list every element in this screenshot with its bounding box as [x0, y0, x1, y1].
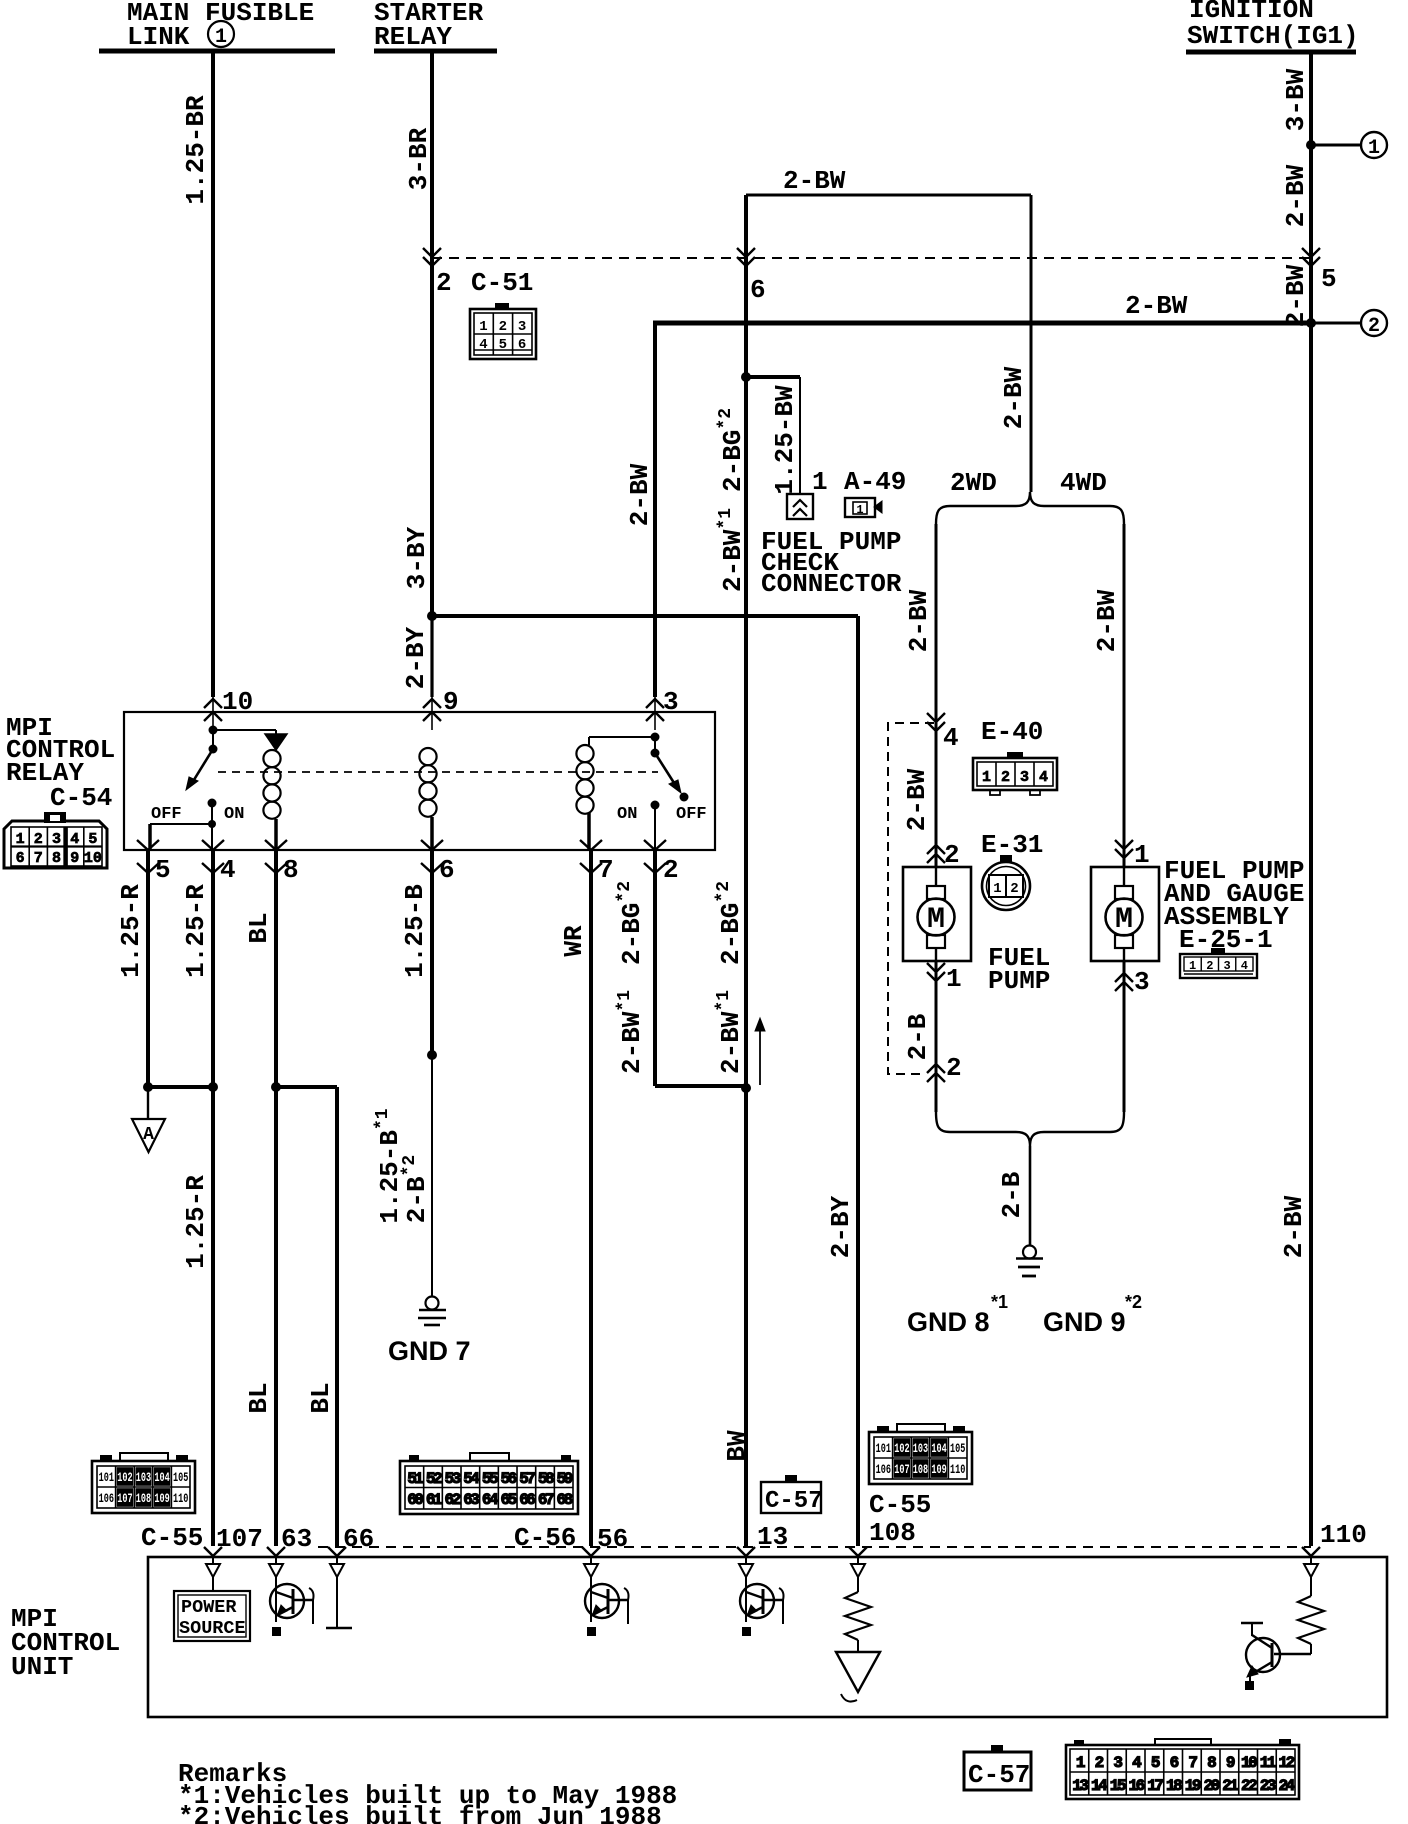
- contact OFF right: [680, 793, 689, 802]
- wire 2-B to GND7: [431, 1055, 433, 1297]
- svg-text:2: 2: [1206, 959, 1213, 973]
- MPI pin 63: [267, 1547, 285, 1556]
- junction dot to circled 1: [1306, 140, 1316, 150]
- transistor Q4: [1241, 1623, 1311, 1690]
- label GND 8 *1: [907, 1292, 1008, 1337]
- relay pin 3: [654, 697, 656, 730]
- svg-text:105: 105: [950, 1442, 965, 1456]
- svg-text:1.25-R: 1.25-R: [181, 1175, 211, 1269]
- svg-text:E-40: E-40: [981, 717, 1043, 747]
- svg-text:GND 7: GND 7: [388, 1336, 471, 1366]
- MPI pin 13: [737, 1547, 755, 1556]
- connector A-49 icon: [845, 498, 882, 517]
- connector C-57 icon bottom: [964, 1745, 1031, 1790]
- svg-text:6: 6: [16, 850, 25, 867]
- wire 1.25-B pin6: [430, 851, 434, 1055]
- svg-text:5: 5: [1321, 264, 1337, 294]
- svg-text:5: 5: [88, 831, 97, 848]
- wire 2-BW left branch down to fuel pump circuit: [744, 195, 748, 1546]
- svg-text:105: 105: [173, 1471, 188, 1485]
- svg-text:M: M: [927, 903, 945, 937]
- relay coil1 bottom wire: [274, 819, 278, 851]
- svg-text:56: 56: [501, 1470, 517, 1488]
- svg-text:107: 107: [894, 1463, 909, 1477]
- svg-text:3: 3: [518, 319, 526, 335]
- svg-text:1: 1: [1134, 840, 1150, 870]
- svg-text:65: 65: [501, 1491, 517, 1509]
- relay pin 8: [265, 840, 287, 850]
- svg-text:2: 2: [1010, 881, 1018, 897]
- labels 1.25-B*1 2-B*2: [373, 1108, 432, 1223]
- driver triangle: [836, 1652, 880, 1702]
- wire BL branch to MPI 66: [276, 1085, 337, 1089]
- pin 3 arrow below 4WD pump: [1115, 973, 1133, 982]
- connector C-57 24pin icon: [1066, 1739, 1299, 1799]
- svg-text:57: 57: [519, 1470, 535, 1488]
- label FUEL PUMP center: [988, 943, 1050, 996]
- svg-text:4: 4: [70, 831, 79, 848]
- relay pin 9: [431, 697, 433, 730]
- wire 2-BW down to relay pin 3: [653, 325, 657, 697]
- bus bar IGNITION SWITCH: [1186, 50, 1356, 55]
- svg-text:RELAY: RELAY: [374, 22, 452, 52]
- svg-text:BL: BL: [244, 912, 274, 943]
- svg-text:C-57: C-57: [968, 1760, 1030, 1790]
- svg-text:3-BY: 3-BY: [402, 526, 432, 589]
- relay coil3 top link: [588, 737, 590, 745]
- connector C-55 icon left: [92, 1453, 195, 1513]
- node MAIN FUSIBLE LINK label: [127, 0, 314, 52]
- MPI CONTROL UNIT box: [148, 1557, 1387, 1717]
- wire below 4WD pump: [1123, 962, 1126, 1112]
- svg-text:C-56: C-56: [514, 1523, 576, 1553]
- svg-text:53: 53: [445, 1470, 461, 1488]
- svg-text:3-BR: 3-BR: [404, 127, 434, 190]
- label MPI CONTROL RELAY: [6, 713, 115, 788]
- svg-text:ON: ON: [224, 805, 244, 824]
- wire 2-BW 2WD branch: [935, 524, 938, 867]
- wire 2-BY horizontal: [432, 614, 858, 618]
- svg-text:1.25-BW: 1.25-BW: [770, 385, 800, 495]
- junction dots A-node: [143, 1082, 153, 1092]
- pin 2 arrow into C-51: [423, 248, 441, 257]
- bus bar MAIN FUSIBLE LINK: [99, 49, 335, 54]
- svg-text:8: 8: [52, 850, 61, 867]
- MPI pin 107: [204, 1547, 222, 1556]
- diode: [265, 734, 287, 750]
- brace 2WD/4WD split: [936, 492, 1124, 524]
- svg-text:66: 66: [519, 1491, 535, 1509]
- wire WR pin7 to MPI 56: [589, 851, 593, 1546]
- wire jog pin5 to pin4: [148, 1085, 213, 1089]
- svg-text:C-54: C-54: [50, 783, 112, 813]
- svg-text:62: 62: [445, 1491, 461, 1509]
- transistor Q1: [270, 1584, 304, 1618]
- svg-text:1: 1: [1189, 959, 1196, 973]
- svg-text:102: 102: [894, 1442, 909, 1456]
- node circled 1: [1361, 132, 1387, 158]
- connector C-57 icon upper: [761, 1475, 823, 1515]
- svg-text:9: 9: [443, 687, 459, 717]
- svg-text:2-BW: 2-BW: [1281, 264, 1311, 327]
- svg-text:2-BW: 2-BW: [783, 166, 846, 196]
- svg-text:UNIT: UNIT: [11, 1652, 73, 1682]
- connector C-54 icon: [4, 812, 107, 868]
- relay coil 1: [263, 750, 280, 767]
- svg-text:BL: BL: [306, 1382, 336, 1413]
- svg-text:10: 10: [222, 687, 253, 717]
- svg-text:3: 3: [1223, 959, 1230, 973]
- svg-text:M: M: [1115, 903, 1133, 937]
- svg-text:101: 101: [876, 1442, 891, 1456]
- junction dot fuel pump check connector branch: [741, 372, 751, 382]
- svg-text:67: 67: [538, 1491, 554, 1509]
- relay pin 2: [644, 840, 666, 850]
- label GND 9 *2: [1043, 1292, 1142, 1337]
- svg-text:58: 58: [538, 1470, 554, 1488]
- svg-text:4: 4: [220, 855, 236, 885]
- svg-text:101: 101: [99, 1471, 114, 1485]
- svg-text:*1: *1: [991, 1292, 1008, 1312]
- svg-text:110: 110: [173, 1492, 188, 1506]
- svg-text:3: 3: [1134, 967, 1150, 997]
- node IGNITION SWITCH(IG1) label: [1187, 0, 1359, 51]
- relay wire ON to pins 4/5: [211, 803, 213, 824]
- wire BL pin8: [274, 851, 278, 1546]
- svg-text:8: 8: [283, 855, 299, 885]
- svg-text:GND 8: GND 8: [907, 1307, 990, 1337]
- svg-text:103: 103: [913, 1442, 928, 1456]
- svg-text:E-31: E-31: [981, 830, 1043, 860]
- svg-text:OFF: OFF: [676, 805, 707, 824]
- svg-text:15: 15: [1110, 1777, 1126, 1795]
- resistor R1: [845, 1577, 871, 1652]
- connector E-31 icon: [982, 855, 1030, 910]
- svg-text:68: 68: [557, 1491, 573, 1509]
- reference arrow up: [755, 1018, 765, 1085]
- svg-text:5: 5: [155, 855, 171, 885]
- svg-text:CONNECTOR: CONNECTOR: [761, 569, 902, 599]
- junction dot to circled 2: [1306, 318, 1316, 328]
- brace fuel pump ground merge: [936, 1112, 1124, 1146]
- svg-text:7: 7: [598, 855, 614, 885]
- pin 6 arrow on wire BW: [737, 248, 755, 257]
- svg-text:*2:Vehicles built from Jun 198: *2:Vehicles built from Jun 1988: [178, 1802, 662, 1824]
- junction dot BL: [271, 1082, 281, 1092]
- svg-text:2: 2: [1368, 315, 1380, 338]
- pin 4 arrow E-40: [927, 713, 945, 722]
- svg-text:17: 17: [1147, 1777, 1163, 1795]
- svg-text:OFF: OFF: [151, 805, 182, 824]
- wire 1.25-R pin4 to MPI 107: [211, 851, 215, 1546]
- wire 2-B below 2WD pump: [935, 962, 938, 1112]
- svg-text:1: 1: [1368, 137, 1380, 160]
- svg-text:2: 2: [1001, 769, 1010, 786]
- MPI pin 66: [328, 1547, 346, 1556]
- svg-text:1.25-B: 1.25-B: [400, 884, 430, 978]
- wire 2-BW right branch down to 2WD/4WD brace: [1030, 195, 1033, 492]
- relay pin 10: [212, 697, 214, 730]
- svg-text:SWITCH(IG1): SWITCH(IG1): [1187, 21, 1359, 51]
- svg-text:4: 4: [943, 723, 959, 753]
- svg-text:103: 103: [136, 1471, 151, 1485]
- svg-text:1: 1: [993, 881, 1001, 897]
- svg-text:66: 66: [343, 1524, 374, 1554]
- wire 1.25-BR from main fusible link to relay pin 10: [211, 52, 215, 697]
- svg-text:109: 109: [154, 1492, 169, 1506]
- POWER SOURCE box: [174, 1577, 250, 1641]
- svg-text:21: 21: [1222, 1777, 1238, 1795]
- svg-text:2-BW: 2-BW: [1125, 291, 1188, 321]
- connector C-56 icon: [400, 1453, 578, 1514]
- wire 2-BW 4WD branch: [1123, 524, 1126, 867]
- wire 2-BW ignition to connector C-51 pin 5: [1309, 145, 1313, 323]
- relay coil 3: [576, 745, 593, 762]
- pin 1 arrow below 2WD pump: [927, 963, 945, 972]
- svg-text:23: 23: [1260, 1777, 1276, 1795]
- transistor Q2: [585, 1584, 619, 1618]
- dashed 2WD-only outline: [888, 723, 934, 1074]
- wire 2-BY from junction to relay pin 9: [430, 616, 433, 697]
- svg-text:51: 51: [407, 1470, 423, 1488]
- svg-text:PUMP: PUMP: [988, 966, 1050, 996]
- svg-text:C-55: C-55: [869, 1490, 931, 1520]
- svg-text:108: 108: [136, 1492, 151, 1506]
- svg-text:*2: *2: [1125, 1292, 1142, 1312]
- svg-text:C-57: C-57: [765, 1488, 823, 1515]
- svg-text:2: 2: [499, 319, 507, 335]
- svg-text:6: 6: [518, 337, 526, 353]
- svg-text:2-BW: 2-BW: [902, 768, 932, 831]
- svg-text:19: 19: [1185, 1777, 1201, 1795]
- relay wire to diode: [213, 729, 276, 731]
- svg-text:16: 16: [1129, 1777, 1145, 1795]
- fuel pump motor 4WD: [1091, 867, 1159, 961]
- svg-text:107: 107: [216, 1524, 263, 1554]
- svg-text:61: 61: [426, 1491, 442, 1509]
- wire 3-BY from C-51 to junction: [430, 258, 434, 616]
- junction dot gauge change: [427, 1050, 437, 1060]
- svg-text:2-B: 2-B: [997, 1171, 1027, 1218]
- svg-text:3: 3: [663, 687, 679, 717]
- svg-text:3: 3: [1020, 769, 1029, 786]
- svg-text:6: 6: [750, 275, 766, 305]
- svg-text:110: 110: [1320, 1520, 1367, 1550]
- svg-text:2: 2: [946, 1053, 962, 1083]
- wire pin2 down: [653, 851, 657, 1086]
- MPI CONTROL UNIT dashed line: [318, 1546, 1311, 1548]
- fuel pump check connector icon: [787, 494, 813, 519]
- svg-text:1.25-BR: 1.25-BR: [181, 95, 211, 205]
- node STARTER RELAY label: [374, 0, 484, 52]
- svg-text:59: 59: [557, 1470, 573, 1488]
- MPI pin 110: [1302, 1547, 1320, 1556]
- svg-text:108: 108: [869, 1518, 916, 1548]
- resistor R2: [1298, 1577, 1324, 1654]
- junction dot BW: [741, 1083, 751, 1093]
- svg-text:WR: WR: [559, 925, 589, 957]
- svg-text:1: 1: [946, 964, 962, 994]
- svg-text:1.25-R: 1.25-R: [181, 884, 211, 978]
- contact ON left: [208, 799, 217, 808]
- pin 2 arrow E-31: [927, 845, 945, 854]
- relay coil 2: [419, 748, 436, 765]
- svg-text:63: 63: [281, 1524, 312, 1554]
- svg-text:2-BY: 2-BY: [401, 626, 431, 689]
- wire 2-BY down to MPI pin 108: [856, 616, 860, 1546]
- relay internal junction pin10: [209, 726, 218, 735]
- svg-text:4WD: 4WD: [1060, 468, 1107, 498]
- label MPI CONTROL UNIT: [11, 1604, 120, 1682]
- svg-text:104: 104: [154, 1471, 170, 1485]
- ground GND8/GND9 symbol: [1016, 1246, 1043, 1277]
- svg-text:2-BW: 2-BW: [1279, 1195, 1309, 1258]
- svg-text:C-51: C-51: [471, 268, 533, 298]
- svg-text:20: 20: [1204, 1777, 1220, 1795]
- wire branch to fuel pump check connector: [746, 375, 800, 379]
- svg-text:A: A: [143, 1125, 154, 1145]
- svg-text:3-BW: 3-BW: [1281, 68, 1311, 131]
- MPI pin 56: [582, 1547, 600, 1556]
- svg-text:2-BW: 2-BW: [1092, 589, 1122, 652]
- node A triangle: [132, 1087, 165, 1152]
- svg-text:A-49: A-49: [844, 467, 906, 497]
- labels 2-BG*2 2-BW*1 pin2: [615, 881, 647, 1074]
- svg-text:5: 5: [499, 337, 507, 353]
- svg-text:106: 106: [99, 1492, 114, 1506]
- svg-text:2: 2: [436, 268, 452, 298]
- remarks note: [178, 1759, 677, 1824]
- connector C-55 icon right: [869, 1424, 972, 1484]
- svg-text:2: 2: [944, 840, 960, 870]
- svg-text:60: 60: [407, 1491, 423, 1509]
- svg-text:56: 56: [597, 1524, 628, 1554]
- svg-text:GND 9: GND 9: [1043, 1307, 1126, 1337]
- svg-text:102: 102: [117, 1471, 132, 1485]
- relay wire ON right to pin 2: [654, 805, 656, 851]
- relay switch arm left: [192, 749, 213, 783]
- svg-text:10: 10: [1241, 1754, 1257, 1772]
- pin 1 arrow 4WD pump: [1115, 840, 1133, 849]
- svg-text:2-BW: 2-BW: [999, 366, 1029, 429]
- svg-text:108: 108: [913, 1463, 928, 1477]
- bus bar STARTER RELAY: [374, 49, 497, 54]
- pin 2 arrow 2WD lower: [927, 1064, 945, 1073]
- label FUEL PUMP AND GAUGE ASSEMBLY: [1164, 856, 1304, 955]
- svg-text:1.25-R: 1.25-R: [116, 884, 146, 978]
- connector E-25-1 icon: [1180, 948, 1257, 978]
- svg-text:LINK: LINK: [127, 22, 190, 52]
- svg-text:4: 4: [1241, 959, 1248, 973]
- wire 2-BW ignition down to MPI pin 110: [1309, 323, 1313, 1546]
- svg-text:2-B: 2-B: [903, 1013, 933, 1060]
- svg-text:18: 18: [1166, 1777, 1182, 1795]
- connector C-51 dashed boundary line: [432, 257, 1311, 259]
- svg-text:110: 110: [950, 1463, 965, 1477]
- terminal stub pin 66: [326, 1577, 352, 1628]
- wire 3-BR from starter relay to C-51: [430, 52, 434, 258]
- svg-text:BL: BL: [244, 1382, 274, 1413]
- relay pin 5: [137, 840, 159, 850]
- relay coil3 bottom wire: [587, 813, 591, 851]
- svg-text:3: 3: [52, 831, 61, 848]
- wire pin2 elbow to BW junction: [655, 1084, 746, 1088]
- junction dot 3-BY/2-BY: [427, 611, 437, 621]
- relay pin 7: [580, 840, 602, 850]
- relay pin 4: [202, 840, 224, 850]
- svg-text:2-BW: 2-BW: [625, 463, 655, 526]
- wire 1.25-R pin5: [146, 851, 150, 1087]
- svg-text:2-BW: 2-BW: [904, 589, 934, 652]
- ground GND7 symbol: [418, 1297, 446, 1326]
- svg-text:106: 106: [876, 1463, 891, 1477]
- connector C-51 icon: [470, 303, 536, 359]
- svg-text:6: 6: [439, 855, 455, 885]
- svg-text:2-BW: 2-BW: [1281, 164, 1311, 227]
- svg-text:4: 4: [1039, 769, 1048, 786]
- svg-text:13: 13: [1072, 1777, 1088, 1795]
- svg-text:52: 52: [426, 1470, 442, 1488]
- relay junction pin3: [651, 733, 660, 742]
- svg-text:9: 9: [70, 850, 79, 867]
- svg-text:2-BY: 2-BY: [826, 1195, 856, 1258]
- MPI pin 108: [849, 1547, 867, 1556]
- connector E-40 icon: [973, 752, 1057, 795]
- contact ON right: [651, 801, 660, 810]
- wire 2-BW thick horizontal to relay pin 3: [653, 321, 1311, 326]
- svg-text:1: 1: [856, 503, 863, 517]
- svg-text:7: 7: [34, 850, 43, 867]
- svg-text:1: 1: [812, 467, 828, 497]
- relay MPI CONTROL RELAY box C-54: [124, 712, 715, 850]
- wire 2-B to ground: [1029, 1146, 1032, 1246]
- svg-text:107: 107: [117, 1492, 132, 1506]
- svg-text:4: 4: [479, 337, 487, 353]
- svg-text:POWER: POWER: [181, 1597, 237, 1618]
- pin 5 arrow ignition wire: [1302, 248, 1320, 257]
- wire 3-BW ignition switch: [1309, 52, 1313, 145]
- wire stub to node 1: [1311, 144, 1361, 147]
- svg-text:SOURCE: SOURCE: [179, 1618, 246, 1639]
- svg-text:104: 104: [931, 1442, 947, 1456]
- svg-text:12: 12: [1279, 1754, 1295, 1772]
- labels 2-BG*2 2-BW*1 BW wire: [714, 881, 746, 1074]
- relay pin 6: [421, 840, 443, 850]
- relay switch pivot left: [209, 745, 218, 754]
- relay switch arm right: [655, 753, 676, 786]
- svg-text:ON: ON: [617, 805, 637, 824]
- svg-text:C-55: C-55: [141, 1523, 203, 1553]
- wire stub to node 2: [1311, 322, 1361, 325]
- svg-text:55: 55: [482, 1470, 498, 1488]
- svg-text:BW: BW: [722, 1430, 752, 1462]
- node circled 2: [1361, 310, 1387, 336]
- svg-text:109: 109: [931, 1463, 946, 1477]
- fuel pump motor 2WD: [903, 867, 971, 961]
- svg-text:2: 2: [663, 855, 679, 885]
- svg-text:1: 1: [215, 26, 227, 49]
- svg-text:63: 63: [463, 1491, 479, 1509]
- wire 2-BW top loop horizontal: [746, 194, 1031, 197]
- svg-text:11: 11: [1260, 1754, 1276, 1772]
- svg-text:E-25-1: E-25-1: [1179, 925, 1273, 955]
- svg-text:2WD: 2WD: [950, 468, 997, 498]
- svg-text:10: 10: [84, 850, 102, 867]
- svg-text:1: 1: [982, 769, 991, 786]
- svg-text:22: 22: [1241, 1777, 1257, 1795]
- svg-text:2: 2: [34, 831, 43, 848]
- relay mechanical link dashed: [218, 771, 658, 773]
